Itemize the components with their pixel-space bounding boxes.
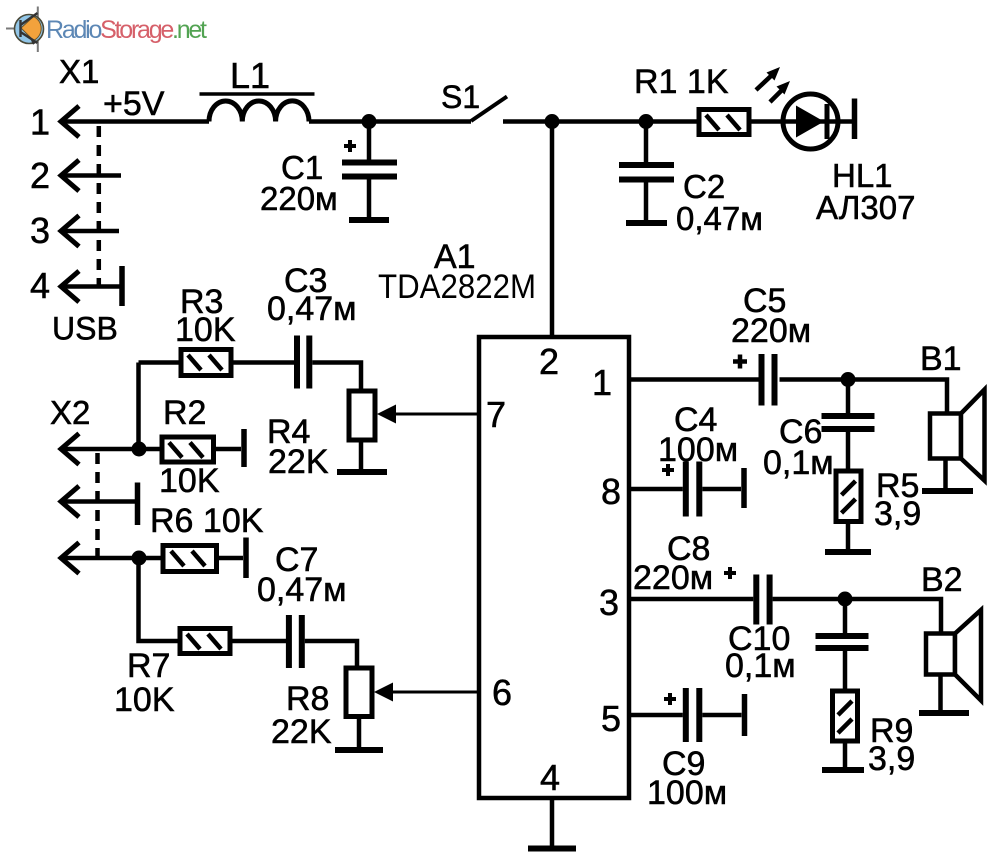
R2 terminal bar [241,429,247,467]
resistor R6 [150,502,264,572]
wire pin3 to C8 [629,597,753,602]
speaker B2 [921,561,981,701]
capacitor C6 [763,380,875,483]
wire B2 to bar [938,675,943,714]
wire riser X2 to R3 [136,363,141,450]
svg-text:0,47м: 0,47м [676,200,763,237]
svg-text:X1: X1 [59,53,99,90]
capacitor C5 [731,282,811,406]
capacitor C2 [619,122,763,238]
wire R3 to C3 [231,360,294,365]
svg-text:USB: USB [52,311,118,347]
svg-text:АЛ307: АЛ307 [816,189,915,226]
svg-text:3,9: 3,9 [868,740,915,778]
X2 pin1 arrow [61,434,79,465]
svg-text:10K: 10K [114,681,175,719]
wire pin8 to C4 [629,487,683,492]
X2 pin3 arrow [61,543,79,574]
X2 pin2 wire [61,499,135,504]
svg-text:1: 1 [592,362,612,403]
capacitor C4 [658,401,738,517]
logo crosshair [6,28,43,30]
wire R2 to bar [214,447,242,452]
ground C1 [349,217,389,223]
wire rail switch to R1 [503,119,699,124]
resistor R5 [836,467,921,533]
X1 pin1 arrow [61,106,79,137]
X1 pin4 wire [61,284,120,289]
C9 terminal bar [742,694,748,736]
svg-text:B1: B1 [920,340,962,378]
switch S1 [471,97,507,122]
wire B1 to bar [943,459,948,492]
wire pin2 [550,122,555,338]
wire R4 to ground [359,440,364,469]
wire pin1 to C5 [629,377,760,382]
svg-text:+5V: +5V [103,85,165,123]
capacitor C3 [267,262,357,389]
capacitor C10 [725,599,869,691]
C4 terminal bar [741,468,747,508]
resistor R3 [175,283,236,376]
ground R8 [335,747,383,753]
connector X1 label [30,53,118,347]
wire C4 to bar [702,487,741,492]
svg-text:R6 10K: R6 10K [150,502,264,540]
svg-text:RadioStorage.net: RadioStorage.net [46,16,207,44]
svg-text:220м: 220м [731,312,811,350]
svg-text:X2: X2 [50,394,90,431]
wire R6 to bar [217,556,244,561]
svg-text:10K: 10K [175,311,236,349]
svg-text:L1: L1 [230,55,270,96]
node junction C2 [639,114,654,129]
node junction C10 [838,592,853,607]
wire R9 to ground [843,741,848,767]
ground pin4 [528,846,576,852]
R6 terminal bar [243,538,249,579]
wire +5V rail left [61,119,209,124]
svg-text:0,47м: 0,47м [267,290,357,328]
X1 pin4 arrow [61,271,79,302]
svg-text:10K: 10K [159,462,220,500]
resistor R1 [634,63,749,135]
svg-text:100м: 100м [658,431,738,469]
svg-text:3: 3 [599,582,619,623]
svg-text:0,1м: 0,1м [725,647,796,685]
wire C7 to R8 [305,641,357,668]
svg-text:5: 5 [601,698,621,739]
wire R5 to ground [846,522,851,550]
wire to R3 [139,360,182,365]
logo transistor [21,13,38,43]
svg-text:8: 8 [601,471,621,512]
svg-text:220м: 220м [633,559,713,597]
wire C5 to B1 [780,380,948,414]
X1 pin4 terminal bar [119,266,125,306]
logo circle [15,15,44,44]
svg-text:2: 2 [539,341,559,382]
ground R5 [825,549,871,555]
svg-text:100м: 100м [647,774,727,812]
svg-text:B2: B2 [921,561,963,599]
resistor R9 [833,691,916,778]
svg-text:S1: S1 [441,79,480,115]
X1 pin3 arrow [61,216,79,247]
IC pin numbers [486,341,621,798]
X2 pin2 terminal bar [135,483,141,526]
wire rail to switch [309,119,471,124]
wire C3 to R4 [312,363,361,392]
svg-text:22K: 22K [271,713,332,751]
wire R8 to ground [357,717,362,748]
wire riser X2pin3 to R7 [139,558,181,641]
node junction C6 [841,372,856,387]
svg-text:4: 4 [540,757,560,798]
svg-text:7: 7 [486,394,506,435]
X2 dashed link [95,453,100,561]
svg-text:220м: 220м [260,180,338,217]
ground C2 [626,220,667,226]
wire pin4 [550,798,555,846]
wire C8 to B2 [773,599,941,634]
LED terminal bar [852,99,858,140]
X2 pin3 wire [61,556,163,561]
svg-text:0,47м: 0,47м [257,571,347,609]
svg-text:1: 1 [30,102,50,143]
svg-text:3: 3 [30,210,50,251]
node junction pin2 [545,114,560,129]
X1 dashed link [97,126,102,288]
svg-text:2: 2 [30,155,50,196]
logo RadioStorage.net [6,7,207,53]
node junction R2/R3 [132,442,147,457]
B2 terminal bar [919,710,969,716]
X2 pin2 arrow [61,486,79,517]
node junction C1 [362,114,377,129]
node junction R6/R7 [132,551,147,566]
B1 terminal bar [922,488,973,494]
wire R1 to LED [749,119,783,124]
inductor L1 [209,101,309,122]
capacitor C1 [260,122,397,218]
wire pin5 to C9 [629,713,683,718]
potentiometer R4 [267,391,375,481]
svg-text:6: 6 [492,672,512,713]
capacitor C8 [633,530,773,625]
svg-text:TDA2822M: TDA2822M [378,268,536,306]
X1 pin2 wire [61,173,121,178]
svg-text:4: 4 [30,265,50,306]
resistor R7 [114,629,230,720]
svg-text:3,9: 3,9 [874,495,921,533]
wire R7 to C7 [230,639,286,644]
ground R9 [822,767,864,773]
svg-text:R2: R2 [163,394,206,432]
speaker B1 [920,340,985,481]
X1 pin3 wire [61,229,119,234]
IC A1 TDA2822M [378,238,629,798]
capacitor C7 [257,541,347,668]
svg-text:R7: R7 [127,647,170,685]
svg-text:R1 1K: R1 1K [634,63,729,101]
ground R4 [337,469,387,475]
wire pin6 to R8 wiper [388,691,479,694]
wire C9 to bar [702,713,741,718]
resistor R2 [159,394,220,500]
LED HL1 [756,67,915,226]
X1 pin2 arrow [61,160,79,191]
svg-text:22K: 22K [268,443,329,481]
capacitor C9 [647,688,727,812]
svg-text:0,1м: 0,1м [763,444,834,482]
logo orange wedge [21,17,41,41]
X2 pin1 wire [61,447,162,452]
wire pin7 to R4 wiper [390,413,479,416]
potentiometer R8 [271,668,372,751]
